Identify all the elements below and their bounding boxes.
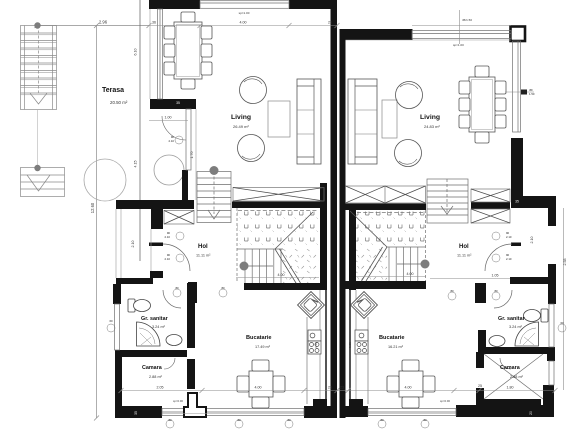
svg-text:Hol: Hol: [459, 244, 469, 250]
svg-text:11.11 m²: 11.11 m²: [196, 254, 211, 258]
svg-text:Terasa: Terasa: [102, 87, 124, 94]
armchair left B: [238, 135, 265, 162]
door tag camara bottom: [166, 418, 174, 428]
dimension line left vertical: [94, 23, 99, 421]
window: north right living: [412, 31, 511, 39]
wall: right unit south-east segment: [456, 405, 547, 417]
sink right: [489, 336, 505, 347]
dim 1.00 left interior: [149, 120, 188, 122]
door tag south right2: [421, 418, 429, 428]
svg-text:80: 80: [168, 418, 172, 422]
dimension line top-left horizontal: [35, 23, 152, 28]
wall: right stair block west: [349, 204, 356, 290]
svg-text:sp=1.00: sp=1.00: [239, 11, 250, 15]
svg-text:11.11 m²: 11.11 m²: [457, 254, 472, 258]
pillar: right hol south doorway: [475, 283, 486, 303]
wall: right unit north segment: [340, 29, 413, 40]
pillar: right unit north-east corner: [511, 27, 526, 42]
svg-text:sp=0.90: sp=0.90: [440, 399, 450, 403]
svg-text:80: 80: [221, 286, 225, 290]
tag hol left door bottom: [173, 286, 181, 297]
chair left-bot: [164, 62, 175, 75]
svg-text:80: 80: [450, 289, 454, 293]
armchair right A: [396, 82, 423, 109]
door tag south window left2: [285, 418, 293, 428]
pillar: hol south doorway: [188, 282, 197, 303]
wall: stair block north (x-band bottom): [232, 202, 326, 209]
svg-text:80: 80: [287, 418, 291, 422]
svg-text:1.55: 1.55: [314, 342, 318, 348]
svg-text:2.10: 2.10: [131, 241, 135, 248]
chair left-mid: [164, 44, 175, 57]
wall: x-box middle bar right entry: [471, 202, 510, 209]
face line north right unit inner: [346, 39, 512, 41]
svg-text:24.83 m²: 24.83 m²: [424, 124, 440, 129]
wall: west stub between terrace windows: [150, 99, 196, 109]
x-box left entry closet: [164, 211, 194, 225]
tag hol right door bottom: [448, 289, 456, 300]
coffee table right: [382, 100, 397, 138]
svg-text:Gr. sanitar: Gr. sanitar: [498, 316, 526, 322]
svg-text:12.60: 12.60: [90, 202, 95, 213]
wall: hol south / gr sanitar north: [116, 278, 153, 284]
svg-text:Camara: Camara: [500, 365, 521, 371]
wall: camara right west upper: [476, 352, 484, 368]
dim line bottom: [119, 388, 558, 393]
wall: camara west stub: [476, 388, 484, 405]
tag hol left door bottom2: [219, 286, 227, 297]
dining table left: [174, 22, 202, 79]
dim 4.00 right stair: [356, 276, 426, 278]
svg-text:60: 60: [560, 321, 564, 325]
toilet left: [128, 299, 151, 312]
corner sink left (rotated): [298, 292, 325, 319]
right stair well hatch upper: [356, 210, 426, 247]
svg-text:35: 35: [515, 200, 519, 204]
kitchen table right: [387, 360, 435, 408]
svg-text:1.50: 1.50: [529, 92, 535, 96]
svg-text:4.00: 4.00: [407, 272, 414, 276]
svg-text:25: 25: [478, 384, 482, 388]
left entry steps from terrace: [197, 172, 231, 223]
kitchen table left: [237, 360, 285, 408]
face line west bathroom outer2: [120, 209, 122, 278]
chair bottom: [181, 79, 195, 89]
chair right-top: [201, 26, 212, 39]
wall: right unit south-west segment: [340, 406, 369, 417]
sofa right unit: [348, 79, 377, 164]
svg-text:sp=0.90: sp=0.90: [173, 399, 183, 403]
window: east bathroom right: [549, 304, 554, 347]
svg-text:2.10: 2.10: [165, 257, 171, 261]
svg-text:Camara: Camara: [142, 365, 163, 371]
door arc: left entry to hol: [163, 244, 190, 271]
wall: right bathroom south / camara north: [478, 347, 548, 354]
shower right: [515, 322, 539, 346]
chair r-right-mid: [495, 98, 506, 111]
right stair dashed top row: [357, 212, 425, 214]
x-boxes right entry: [471, 189, 510, 223]
wall: kitchen duct right outline: [350, 290, 356, 400]
svg-text:Bucatarie: Bucatarie: [379, 335, 405, 341]
svg-text:80: 80: [380, 418, 384, 422]
door tag left hol lower: [165, 253, 184, 262]
dim line top window left: [149, 23, 340, 28]
dim right top line: [412, 10, 511, 44]
svg-text:80: 80: [494, 289, 498, 293]
chair r-right-top: [495, 81, 506, 94]
door tag left hol upper: [165, 231, 184, 240]
window: west terrace door glazing: [186, 109, 191, 170]
shower left: [137, 322, 161, 346]
chair right-mid: [201, 44, 212, 57]
wall: hol west stub lower: [150, 271, 163, 278]
stoop left unit south: [184, 393, 206, 417]
svg-text:Living: Living: [420, 114, 440, 121]
svg-text:80: 80: [237, 418, 241, 422]
wall: left unit north-east segment: [289, 0, 337, 9]
left stair well hatch right: [283, 249, 319, 283]
wall: east protrusion mid: [548, 264, 556, 304]
right stair node dot: [421, 260, 430, 269]
chair right-bot: [201, 62, 212, 75]
svg-text:23: 23: [328, 386, 332, 390]
wall: camara east: [187, 359, 195, 389]
svg-text:4.00: 4.00: [240, 21, 247, 25]
svg-text:Hol: Hol: [198, 244, 208, 250]
svg-text:80: 80: [423, 418, 427, 422]
svg-text:2.10: 2.10: [530, 237, 534, 244]
svg-text:36: 36: [152, 21, 156, 25]
left stair treads: [237, 208, 283, 283]
wall: terrace south / hol north bar: [116, 200, 194, 209]
tag east window: [505, 88, 535, 96]
tag bathroom window right: [558, 321, 566, 332]
svg-text:35: 35: [134, 411, 138, 415]
dim line east protrusion: [563, 208, 565, 390]
svg-text:23: 23: [328, 21, 332, 25]
tag hol right door bottom2: [492, 289, 500, 300]
svg-text:23: 23: [340, 386, 344, 390]
wall: bathroom south / camara north: [122, 350, 187, 357]
toilet right: [524, 309, 549, 322]
kitchen counter left: [306, 317, 308, 404]
svg-text:26.49 m²: 26.49 m²: [233, 124, 249, 129]
door tag right hol lower: [492, 253, 512, 262]
exterior stair top-left: [21, 26, 57, 110]
svg-text:4.00: 4.00: [405, 386, 412, 390]
right stair walk line: [397, 263, 425, 265]
svg-text:2.58: 2.58: [563, 259, 567, 266]
wall: right unit west exterior (party wall east): [340, 29, 346, 418]
wall: left unit north-west segment: [149, 0, 200, 9]
door arc: left bathroom: [163, 290, 181, 308]
wall: right unit south-east block: [543, 385, 554, 417]
svg-text:1.55: 1.55: [348, 342, 352, 348]
svg-text:2.05: 2.05: [157, 386, 164, 390]
svg-text:20.50 m²: 20.50 m²: [110, 100, 128, 105]
kitchen counter right: [367, 317, 369, 404]
svg-text:60: 60: [109, 319, 113, 323]
door arc: right entry to hol: [485, 244, 512, 271]
svg-text:2.10: 2.10: [165, 235, 171, 239]
left stair dashed top row: [238, 210, 318, 212]
svg-text:4.15: 4.15: [134, 161, 138, 168]
svg-text:2.10: 2.10: [506, 257, 512, 261]
window: south glazing right unit: [368, 409, 456, 416]
dim line hol right: [430, 278, 510, 280]
wall: east protrusion at bathroom: [547, 347, 555, 361]
chair left-top: [164, 26, 175, 39]
face line hol west lower: [150, 229, 152, 271]
right entry steps east: [427, 179, 468, 223]
wall: bathroom east wall: [187, 283, 195, 348]
wall: stair block east: [320, 183, 327, 290]
svg-text:45/1.50: 45/1.50: [462, 18, 472, 22]
chair r-top: [475, 66, 489, 77]
window: bathroom west: [115, 304, 120, 350]
threshold line bottom: [162, 413, 304, 415]
svg-text:2.10: 2.10: [169, 139, 175, 143]
wall: east stub to protrusion: [523, 196, 556, 208]
svg-text:2.10: 2.10: [506, 235, 512, 239]
stove left: [308, 330, 321, 354]
stove right: [355, 330, 368, 354]
door arc: right bathroom: [494, 290, 512, 308]
tree circle left: [84, 159, 126, 201]
svg-text:80: 80: [175, 286, 179, 290]
svg-text:2.96: 2.96: [99, 20, 108, 25]
svg-text:sp=1.00: sp=1.00: [453, 43, 464, 47]
svg-text:1.80: 1.80: [507, 386, 514, 390]
svg-text:20: 20: [529, 411, 533, 415]
door tag terrace door: [169, 135, 183, 144]
wall: camara south interior: [484, 399, 541, 406]
svg-text:1.05: 1.05: [492, 274, 499, 278]
planter node dot: [34, 165, 40, 171]
chair r-right-bot: [495, 115, 506, 128]
svg-text:1.00: 1.00: [165, 116, 172, 120]
window: east right living: [513, 41, 521, 132]
face line west living: [149, 9, 151, 99]
x-band above left stair: [233, 188, 324, 202]
left entry node dot: [210, 166, 219, 175]
coffee table left: [268, 101, 290, 137]
svg-text:35: 35: [176, 101, 180, 105]
wall: west wall lower piece at entry: [182, 170, 188, 209]
left stair node dot: [240, 262, 249, 271]
svg-text:Bucatarie: Bucatarie: [246, 335, 272, 341]
wall: left unit south-east segment: [304, 406, 337, 418]
left stair break line: [275, 212, 313, 283]
wall: kitchen duct left outline: [320, 290, 326, 400]
right stair break line: [350, 211, 387, 281]
wall: left unit south-west segment: [115, 406, 162, 418]
window: east camara right: [549, 361, 554, 385]
grid line x=138: [139, 0, 141, 261]
door arc: right camara: [500, 358, 511, 369]
wall: right unit east upper: [511, 138, 523, 208]
wall: hol west stem: [151, 209, 163, 229]
svg-text:16.21 m²: 16.21 m²: [388, 345, 404, 349]
left stair well hatch upper: [237, 208, 319, 249]
armchair right B: [395, 140, 422, 167]
window: south glazing left unit: [162, 409, 304, 416]
stair node dot: [34, 22, 40, 28]
right stair well hatch left: [356, 247, 387, 281]
sofa left unit: [297, 79, 321, 164]
dining table right: [469, 77, 495, 132]
svg-text:6.10: 6.10: [134, 49, 138, 56]
wall: right stair block north: [344, 204, 426, 211]
wall: kitchen duct right foot: [349, 399, 363, 407]
tag bathroom window left: [107, 319, 115, 332]
window: north living: [200, 1, 289, 9]
armchair left A: [240, 77, 267, 104]
chair r-left-mid: [459, 98, 470, 111]
dim 4.00 left stair: [236, 277, 319, 279]
svg-text:1.70: 1.70: [190, 152, 194, 159]
svg-text:2.88 m²: 2.88 m²: [510, 375, 524, 379]
right stair treads: [387, 210, 426, 281]
svg-text:17.49 m²: 17.49 m²: [255, 345, 271, 349]
svg-text:4.00: 4.00: [255, 386, 262, 390]
wall: east protrusion upper: [548, 208, 556, 226]
wall: kitchen duct left foot: [313, 399, 327, 407]
tree circle terrace: [154, 155, 184, 185]
door tag south right1: [378, 418, 386, 428]
corner sink right (rotated): [351, 292, 378, 319]
chair r-bottom: [475, 132, 489, 143]
chair top: [181, 12, 195, 22]
camara right x-cross floor: [484, 354, 543, 399]
wall: right stair block south: [344, 281, 426, 289]
svg-text:3.24 m²: 3.24 m²: [509, 325, 523, 329]
sink left: [166, 335, 182, 346]
chair r-left-top: [459, 81, 470, 94]
wall: gr sanitar west right unit: [478, 284, 486, 302]
x-band above right stair: [346, 186, 426, 203]
svg-text:3.24 m²: 3.24 m²: [152, 325, 166, 329]
window: west terrace glazing upper: [158, 9, 163, 99]
svg-text:Gr. sanitar: Gr. sanitar: [141, 316, 169, 322]
face line west hol outer: [195, 109, 197, 200]
door leaf: entry door hol: [149, 243, 163, 247]
door leaf: right entry door: [511, 243, 521, 247]
left stair walk line: [244, 265, 273, 267]
wall: gr sanitar west protrusion: [113, 284, 121, 304]
svg-text:4.00: 4.00: [278, 273, 285, 277]
door arc: left camara: [164, 358, 175, 369]
wall: gr sanitar west right lower: [478, 330, 486, 347]
door tag right hol upper: [492, 231, 512, 240]
wall: left unit east exterior (party wall west): [331, 9, 338, 418]
wall: stair block south: [244, 283, 326, 290]
planter lower-left: [21, 168, 65, 197]
svg-text:Living: Living: [231, 114, 251, 121]
wall: hol south right / gr sanitar north: [510, 277, 556, 284]
svg-text:2.88 m²: 2.88 m²: [149, 375, 163, 379]
door tag south window left: [235, 418, 243, 428]
face line west bathroom outer: [115, 209, 117, 278]
door arc: left terrace door: [162, 116, 186, 140]
wall: gr sanitar / camara west lower: [115, 350, 122, 418]
chair r-left-bot: [459, 115, 470, 128]
